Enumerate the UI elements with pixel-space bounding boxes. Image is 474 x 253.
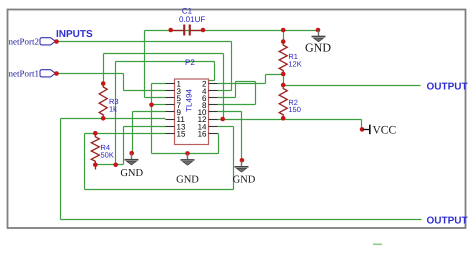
resistor R4 [91,133,99,165]
wire: pin 10 to GND3 [218,111,242,113]
wire: pin 2 / R1 bottom / OUTPUT top net [218,83,266,85]
svg-text:TL494: TL494 [185,89,194,112]
svg-text:1k: 1k [109,105,117,114]
pin 14 stub [209,126,218,128]
op-amp / PWM IC U=P2 TL494 body [175,79,209,145]
wire: C1 net vertical to pin 5 [144,31,146,98]
svg-text:GND: GND [120,168,143,179]
capacitor C1 [171,30,184,32]
wire: pin 13 to R4 bottom [124,126,166,128]
ground GND4 top right [316,28,321,33]
wire: R3 top to pin 12 / R2 bottom net [104,53,224,55]
ground GND1 below R3/R4 area [129,151,134,156]
svg-text:OUTPUT: OUTPUT [427,82,468,93]
pin 4 stub [209,90,218,92]
pin 2 stub [209,83,218,85]
pin 1 stub [166,83,175,85]
junction dots [281,28,286,33]
wire: OUTPUT top horizontal [284,85,421,87]
svg-text:15: 15 [177,129,186,138]
wire: netPort1 to pin 3 [57,73,124,75]
pin 8 stub [209,104,218,106]
net port netPort2 [40,38,56,45]
wire: C1 net horizontal y=30 [145,30,284,32]
pin 16 stub [209,133,218,135]
wire: R4 bottom to IC top-right net [116,61,215,63]
svg-text:GND: GND [233,175,256,186]
wire: pin 6 / pin 8 jog net [218,97,236,99]
svg-text:netPort1: netPort1 [9,69,40,79]
resistor R2 [279,85,287,118]
pin 9 stub [166,111,175,113]
stray green dash bottom [373,244,382,246]
pin 3 stub [166,90,175,92]
svg-text:netPort2: netPort2 [9,37,40,47]
wire: pin 9 to GND1 [133,111,166,113]
wire: pin1 / pin7 / pin16 / GND2 net [152,83,166,85]
wire: pin 15 / R4 top / pin 14 loop [85,133,166,135]
ground GND3 below pin 10 [240,158,245,163]
svg-text:VCC: VCC [373,125,397,137]
svg-text:16: 16 [198,129,207,138]
svg-text:150: 150 [288,105,301,114]
wire: R1 top drop from C1 net [283,31,285,42]
svg-text:50K: 50K [101,151,114,160]
svg-text:12K: 12K [288,60,301,69]
power VCC [360,127,365,132]
wire: R1 bottom to R2 top junction [283,75,285,86]
svg-text:P2: P2 [185,58,195,67]
pin 10 stub [209,111,218,113]
wire: INPUTS net from netPort2 to pin 4 [57,41,232,43]
svg-text:INPUTS: INPUTS [56,29,93,40]
wire: pin12 row horizontal to R2 bottom and VCC [218,119,362,121]
svg-text:OUTPUT: OUTPUT [427,216,468,227]
pin 5 stub [166,97,175,99]
svg-text:0.01UF: 0.01UF [179,15,205,24]
wire: pin 11 / R3 bottom / OUTPUT bottom net [61,118,166,120]
svg-text:GND: GND [305,41,331,55]
pin 11 stub [166,119,175,121]
pin 15 stub [166,133,175,135]
pin 6 stub [209,97,218,99]
pin 12 stub [209,119,218,121]
net port netPort1 [40,70,56,77]
pin 13 stub [166,126,175,128]
pin 7 stub [166,104,175,106]
svg-text:GND: GND [176,175,199,186]
wire: C1 net to GND [284,30,319,32]
resistor R1 [279,42,287,74]
ground GND2 below IC [185,151,190,156]
resistor R3 [99,84,107,119]
